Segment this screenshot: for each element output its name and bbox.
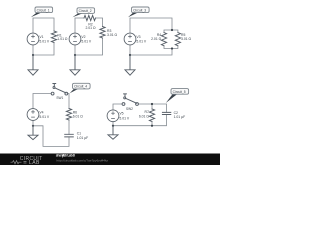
node junction circuit 1: [32, 54, 34, 56]
svg-text:5.01 V: 5.01 V: [39, 40, 50, 44]
svg-text:5.01 V: 5.01 V: [119, 116, 130, 120]
svg-text:6.01 Ω: 6.01 Ω: [73, 115, 84, 119]
resistor R7: [149, 109, 154, 121]
wire: circuit 5 top, branches and bottom: [113, 104, 167, 126]
svg-text:Circuit_5: Circuit_5: [173, 90, 186, 94]
svg-text:http://circuitlab.com/c/7ae7py: http://circuitlab.com/c/7ae7py6zd44kx: [57, 158, 109, 162]
wire: circuit 2 loop: [75, 18, 103, 55]
resistor R3: [100, 27, 105, 39]
voltage source V4: [27, 109, 39, 121]
resistor R1: [51, 31, 56, 43]
ground circuit 5: [108, 126, 118, 140]
footer watermark bar: [0, 154, 220, 166]
svg-text:Circuit_1: Circuit_1: [37, 8, 50, 12]
svg-text:V4: V4: [39, 110, 43, 114]
svg-text:shenjltd / Lab 8: shenjltd / Lab 8: [56, 153, 75, 157]
svg-text:R5: R5: [181, 33, 185, 37]
ground circuit 2: [70, 55, 80, 75]
svg-text:1.01 Ω: 1.01 Ω: [57, 37, 68, 41]
node junction circuit 4: [32, 125, 34, 127]
resistor R4: [161, 33, 166, 46]
capacitor C1: [65, 134, 74, 137]
label V3 5.01 V: [136, 35, 147, 44]
resistor R6: [66, 109, 71, 121]
svg-text:V3: V3: [136, 35, 140, 39]
node junction circuit 2: [74, 54, 76, 56]
voltage source V3: [124, 33, 136, 45]
annotation box Circuit_3: [128, 7, 149, 17]
resistor R5: [175, 33, 180, 46]
svg-text:2.01 Ω: 2.01 Ω: [151, 37, 162, 41]
label R2 2.01 ohm: [85, 23, 96, 30]
ground circuit 4: [28, 126, 38, 140]
CircuitLab logo: [11, 156, 43, 166]
svg-text:5.01 V: 5.01 V: [39, 115, 50, 119]
wire: circuit 3 loop and parallel rails: [130, 18, 178, 55]
svg-text:2.01 Ω: 2.01 Ω: [85, 26, 96, 30]
svg-text:C1: C1: [77, 131, 81, 135]
label C2 1.01 uF: [174, 111, 186, 119]
svg-text:5.01 V: 5.01 V: [136, 40, 147, 44]
svg-text:1.01 µF: 1.01 µF: [77, 136, 89, 140]
node junctions circuit 5: [112, 103, 153, 127]
label R6 6.01 ohm: [73, 111, 84, 119]
svg-text:SW2: SW2: [126, 107, 133, 111]
svg-text:Circuit_2: Circuit_2: [79, 9, 92, 13]
capacitor C2: [162, 112, 170, 114]
svg-text:V5: V5: [119, 112, 123, 116]
voltage source V5: [107, 110, 119, 122]
ground circuit 1: [28, 55, 38, 75]
label R1 1.01 ohm: [57, 33, 68, 41]
label R5 3.01 ohm: [181, 33, 192, 41]
svg-text:1.01 µF: 1.01 µF: [174, 115, 186, 119]
ground circuit 3: [125, 55, 135, 75]
svg-text:6.01 Ω: 6.01 Ω: [139, 114, 150, 118]
svg-text:5.01 V: 5.01 V: [81, 40, 92, 44]
label V1 5.01 V: [39, 35, 50, 44]
svg-text:3.01 Ω: 3.01 Ω: [107, 33, 118, 37]
annotation box Circuit_2: [73, 8, 95, 17]
svg-text:V1: V1: [39, 35, 43, 39]
label V2 5.01 V: [81, 35, 92, 44]
label V4 5.01 V: [39, 110, 50, 119]
switch SW1: [51, 84, 68, 96]
svg-text:V2: V2: [81, 35, 85, 39]
svg-text:Circuit_4: Circuit_4: [74, 85, 87, 89]
svg-text:SW1: SW1: [56, 96, 63, 100]
voltage source V2: [69, 33, 81, 45]
svg-text:3.01 Ω: 3.01 Ω: [181, 37, 192, 41]
label R4 2.01 ohm: [151, 33, 162, 41]
svg-text:LAB: LAB: [29, 160, 40, 165]
svg-text:R4: R4: [157, 33, 161, 37]
annotation box Circuit_1: [31, 7, 53, 17]
annotation box Circuit_4: [70, 83, 90, 93]
label R3 3.01 ohm: [107, 29, 118, 37]
resistor R2 (horizontal): [84, 15, 96, 20]
label V5 5.01 V: [119, 112, 130, 121]
svg-text:Circuit_3: Circuit_3: [133, 8, 146, 12]
switch SW2: [122, 94, 138, 106]
annotation box Circuit_5: [166, 89, 189, 103]
wire: circuit 4 top and branches: [33, 94, 69, 147]
node junctions circuit 3: [129, 29, 173, 56]
voltage source V1: [27, 33, 39, 45]
label R7 6.01 ohm: [139, 110, 150, 118]
label C1 1.01 uF: [77, 131, 89, 140]
wire: circuit 1 loop: [33, 18, 54, 55]
